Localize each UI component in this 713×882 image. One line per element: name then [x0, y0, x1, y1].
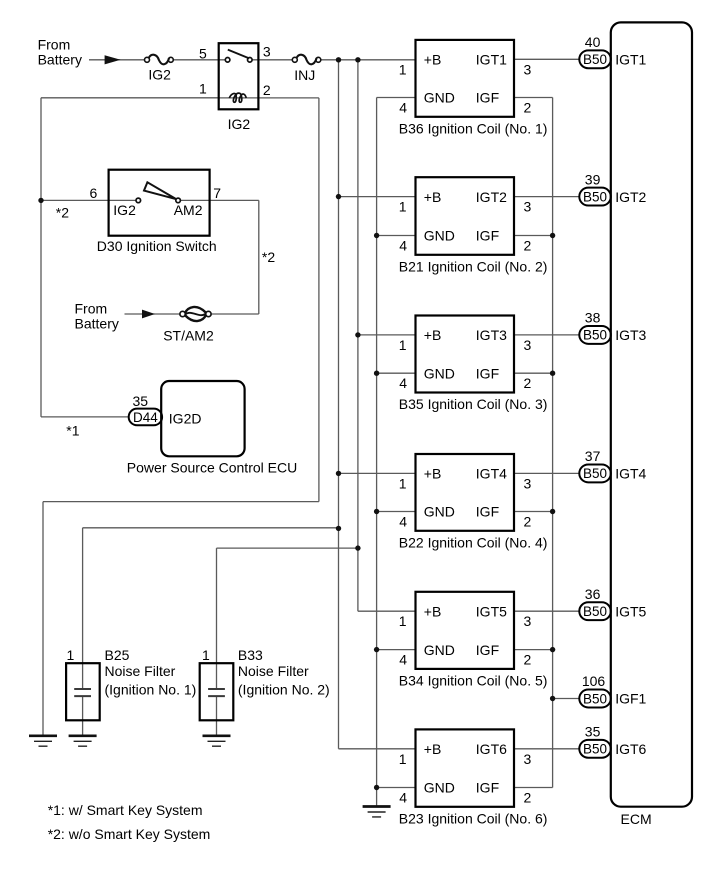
svg-text:ST/AM2: ST/AM2	[163, 327, 214, 343]
svg-text:37: 37	[585, 448, 601, 464]
svg-text:2: 2	[524, 375, 532, 391]
svg-text:IGT6: IGT6	[476, 741, 507, 757]
svg-text:Battery: Battery	[38, 52, 82, 68]
svg-text:B34 Ignition Coil (No. 5): B34 Ignition Coil (No. 5)	[399, 672, 548, 688]
svg-text:3: 3	[524, 337, 532, 353]
svg-text:B21 Ignition Coil (No. 2): B21 Ignition Coil (No. 2)	[399, 258, 548, 274]
svg-text:4: 4	[399, 514, 407, 530]
svg-text:+B: +B	[424, 327, 442, 343]
svg-text:IGT1: IGT1	[476, 52, 507, 68]
svg-text:35: 35	[133, 393, 149, 409]
svg-text:IGF: IGF	[476, 642, 499, 658]
svg-text:Noise Filter: Noise Filter	[105, 663, 176, 679]
svg-text:*2: *2	[56, 205, 69, 221]
svg-text:IGT2: IGT2	[615, 189, 646, 205]
svg-text:Power Source Control ECU: Power Source Control ECU	[127, 460, 297, 476]
svg-text:B35 Ignition Coil (No. 3): B35 Ignition Coil (No. 3)	[399, 396, 548, 412]
svg-text:2: 2	[524, 652, 532, 668]
svg-text:4: 4	[399, 375, 407, 391]
svg-text:2: 2	[524, 238, 532, 254]
svg-text:IGT2: IGT2	[476, 189, 507, 205]
svg-text:2: 2	[524, 790, 532, 806]
svg-text:IG2: IG2	[113, 202, 136, 218]
svg-text:From: From	[75, 301, 108, 317]
svg-text:B50: B50	[583, 604, 607, 619]
svg-text:1: 1	[399, 199, 407, 215]
svg-text:39: 39	[585, 171, 601, 187]
svg-text:3: 3	[524, 475, 532, 491]
svg-text:+B: +B	[424, 603, 442, 619]
svg-text:IGF: IGF	[476, 504, 499, 520]
svg-text:B22 Ignition Coil (No. 4): B22 Ignition Coil (No. 4)	[399, 534, 548, 550]
svg-text:36: 36	[585, 586, 601, 602]
svg-text:1: 1	[399, 337, 407, 353]
svg-text:From: From	[38, 37, 71, 53]
svg-text:B23 Ignition Coil (No. 6): B23 Ignition Coil (No. 6)	[399, 810, 548, 826]
svg-text:4: 4	[399, 790, 407, 806]
svg-text:GND: GND	[424, 90, 455, 106]
svg-text:B33: B33	[238, 647, 263, 663]
svg-text:IGT3: IGT3	[615, 327, 646, 343]
svg-text:1: 1	[199, 81, 207, 97]
svg-text:IGT1: IGT1	[615, 52, 646, 68]
svg-text:1: 1	[202, 647, 210, 663]
svg-text:IG2D: IG2D	[169, 410, 202, 426]
svg-text:IGT6: IGT6	[615, 741, 646, 757]
svg-text:3: 3	[524, 199, 532, 215]
svg-text:IGF1: IGF1	[615, 691, 646, 707]
svg-text:+B: +B	[424, 466, 442, 482]
svg-text:B50: B50	[583, 328, 607, 343]
svg-text:IGF: IGF	[476, 228, 499, 244]
svg-text:IG2: IG2	[228, 116, 251, 132]
svg-text:ECM: ECM	[621, 811, 652, 827]
svg-text:4: 4	[399, 238, 407, 254]
svg-text:IGF: IGF	[476, 90, 499, 106]
svg-text:GND: GND	[424, 504, 455, 520]
svg-text:4: 4	[399, 652, 407, 668]
svg-text:106: 106	[582, 673, 606, 689]
svg-text:2: 2	[263, 82, 271, 98]
svg-text:IGT3: IGT3	[476, 327, 507, 343]
svg-text:Battery: Battery	[75, 316, 119, 332]
svg-text:3: 3	[263, 44, 271, 60]
svg-text:D44: D44	[133, 410, 158, 425]
svg-text:*1: *1	[66, 423, 79, 439]
svg-text:1: 1	[399, 61, 407, 77]
svg-text:IGT5: IGT5	[615, 603, 646, 619]
svg-text:3: 3	[524, 613, 532, 629]
svg-text:1: 1	[399, 613, 407, 629]
svg-text:(Ignition No. 1): (Ignition No. 1)	[105, 682, 197, 698]
svg-text:B50: B50	[583, 52, 607, 67]
svg-text:B50: B50	[583, 691, 607, 706]
svg-text:4: 4	[399, 100, 407, 116]
svg-text:B36 Ignition Coil (No. 1): B36 Ignition Coil (No. 1)	[399, 120, 548, 136]
svg-text:2: 2	[524, 514, 532, 530]
svg-text:3: 3	[524, 61, 532, 77]
svg-text:AM2: AM2	[174, 202, 203, 218]
svg-text:2: 2	[524, 100, 532, 116]
svg-text:38: 38	[585, 310, 601, 326]
svg-text:GND: GND	[424, 780, 455, 796]
svg-text:7: 7	[213, 185, 221, 201]
svg-text:GND: GND	[424, 365, 455, 381]
svg-text:5: 5	[199, 45, 207, 61]
svg-text:*2: *2	[262, 249, 275, 265]
svg-text:B25: B25	[105, 647, 130, 663]
svg-text:*2: w/o Smart Key System: *2: w/o Smart Key System	[48, 826, 211, 842]
svg-text:+B: +B	[424, 52, 442, 68]
svg-text:B50: B50	[583, 189, 607, 204]
svg-text:40: 40	[585, 34, 601, 50]
svg-text:D30 Ignition Switch: D30 Ignition Switch	[97, 238, 217, 254]
svg-text:INJ: INJ	[294, 67, 315, 83]
svg-text:B50: B50	[583, 466, 607, 481]
svg-text:IGT4: IGT4	[476, 466, 507, 482]
svg-text:B50: B50	[583, 742, 607, 757]
svg-text:*1: w/ Smart Key System: *1: w/ Smart Key System	[48, 802, 203, 818]
svg-text:1: 1	[67, 647, 75, 663]
svg-text:Noise Filter: Noise Filter	[238, 663, 309, 679]
svg-text:IGT5: IGT5	[476, 603, 507, 619]
svg-text:(Ignition No. 2): (Ignition No. 2)	[238, 682, 330, 698]
svg-text:IGT4: IGT4	[615, 466, 646, 482]
svg-text:IGF: IGF	[476, 780, 499, 796]
svg-text:3: 3	[524, 751, 532, 767]
svg-text:6: 6	[90, 185, 98, 201]
svg-text:GND: GND	[424, 642, 455, 658]
svg-text:IGF: IGF	[476, 365, 499, 381]
svg-text:1: 1	[399, 475, 407, 491]
svg-text:IG2: IG2	[148, 67, 171, 83]
svg-text:1: 1	[399, 751, 407, 767]
svg-text:35: 35	[585, 724, 601, 740]
svg-text:GND: GND	[424, 228, 455, 244]
svg-text:+B: +B	[424, 741, 442, 757]
svg-text:+B: +B	[424, 189, 442, 205]
